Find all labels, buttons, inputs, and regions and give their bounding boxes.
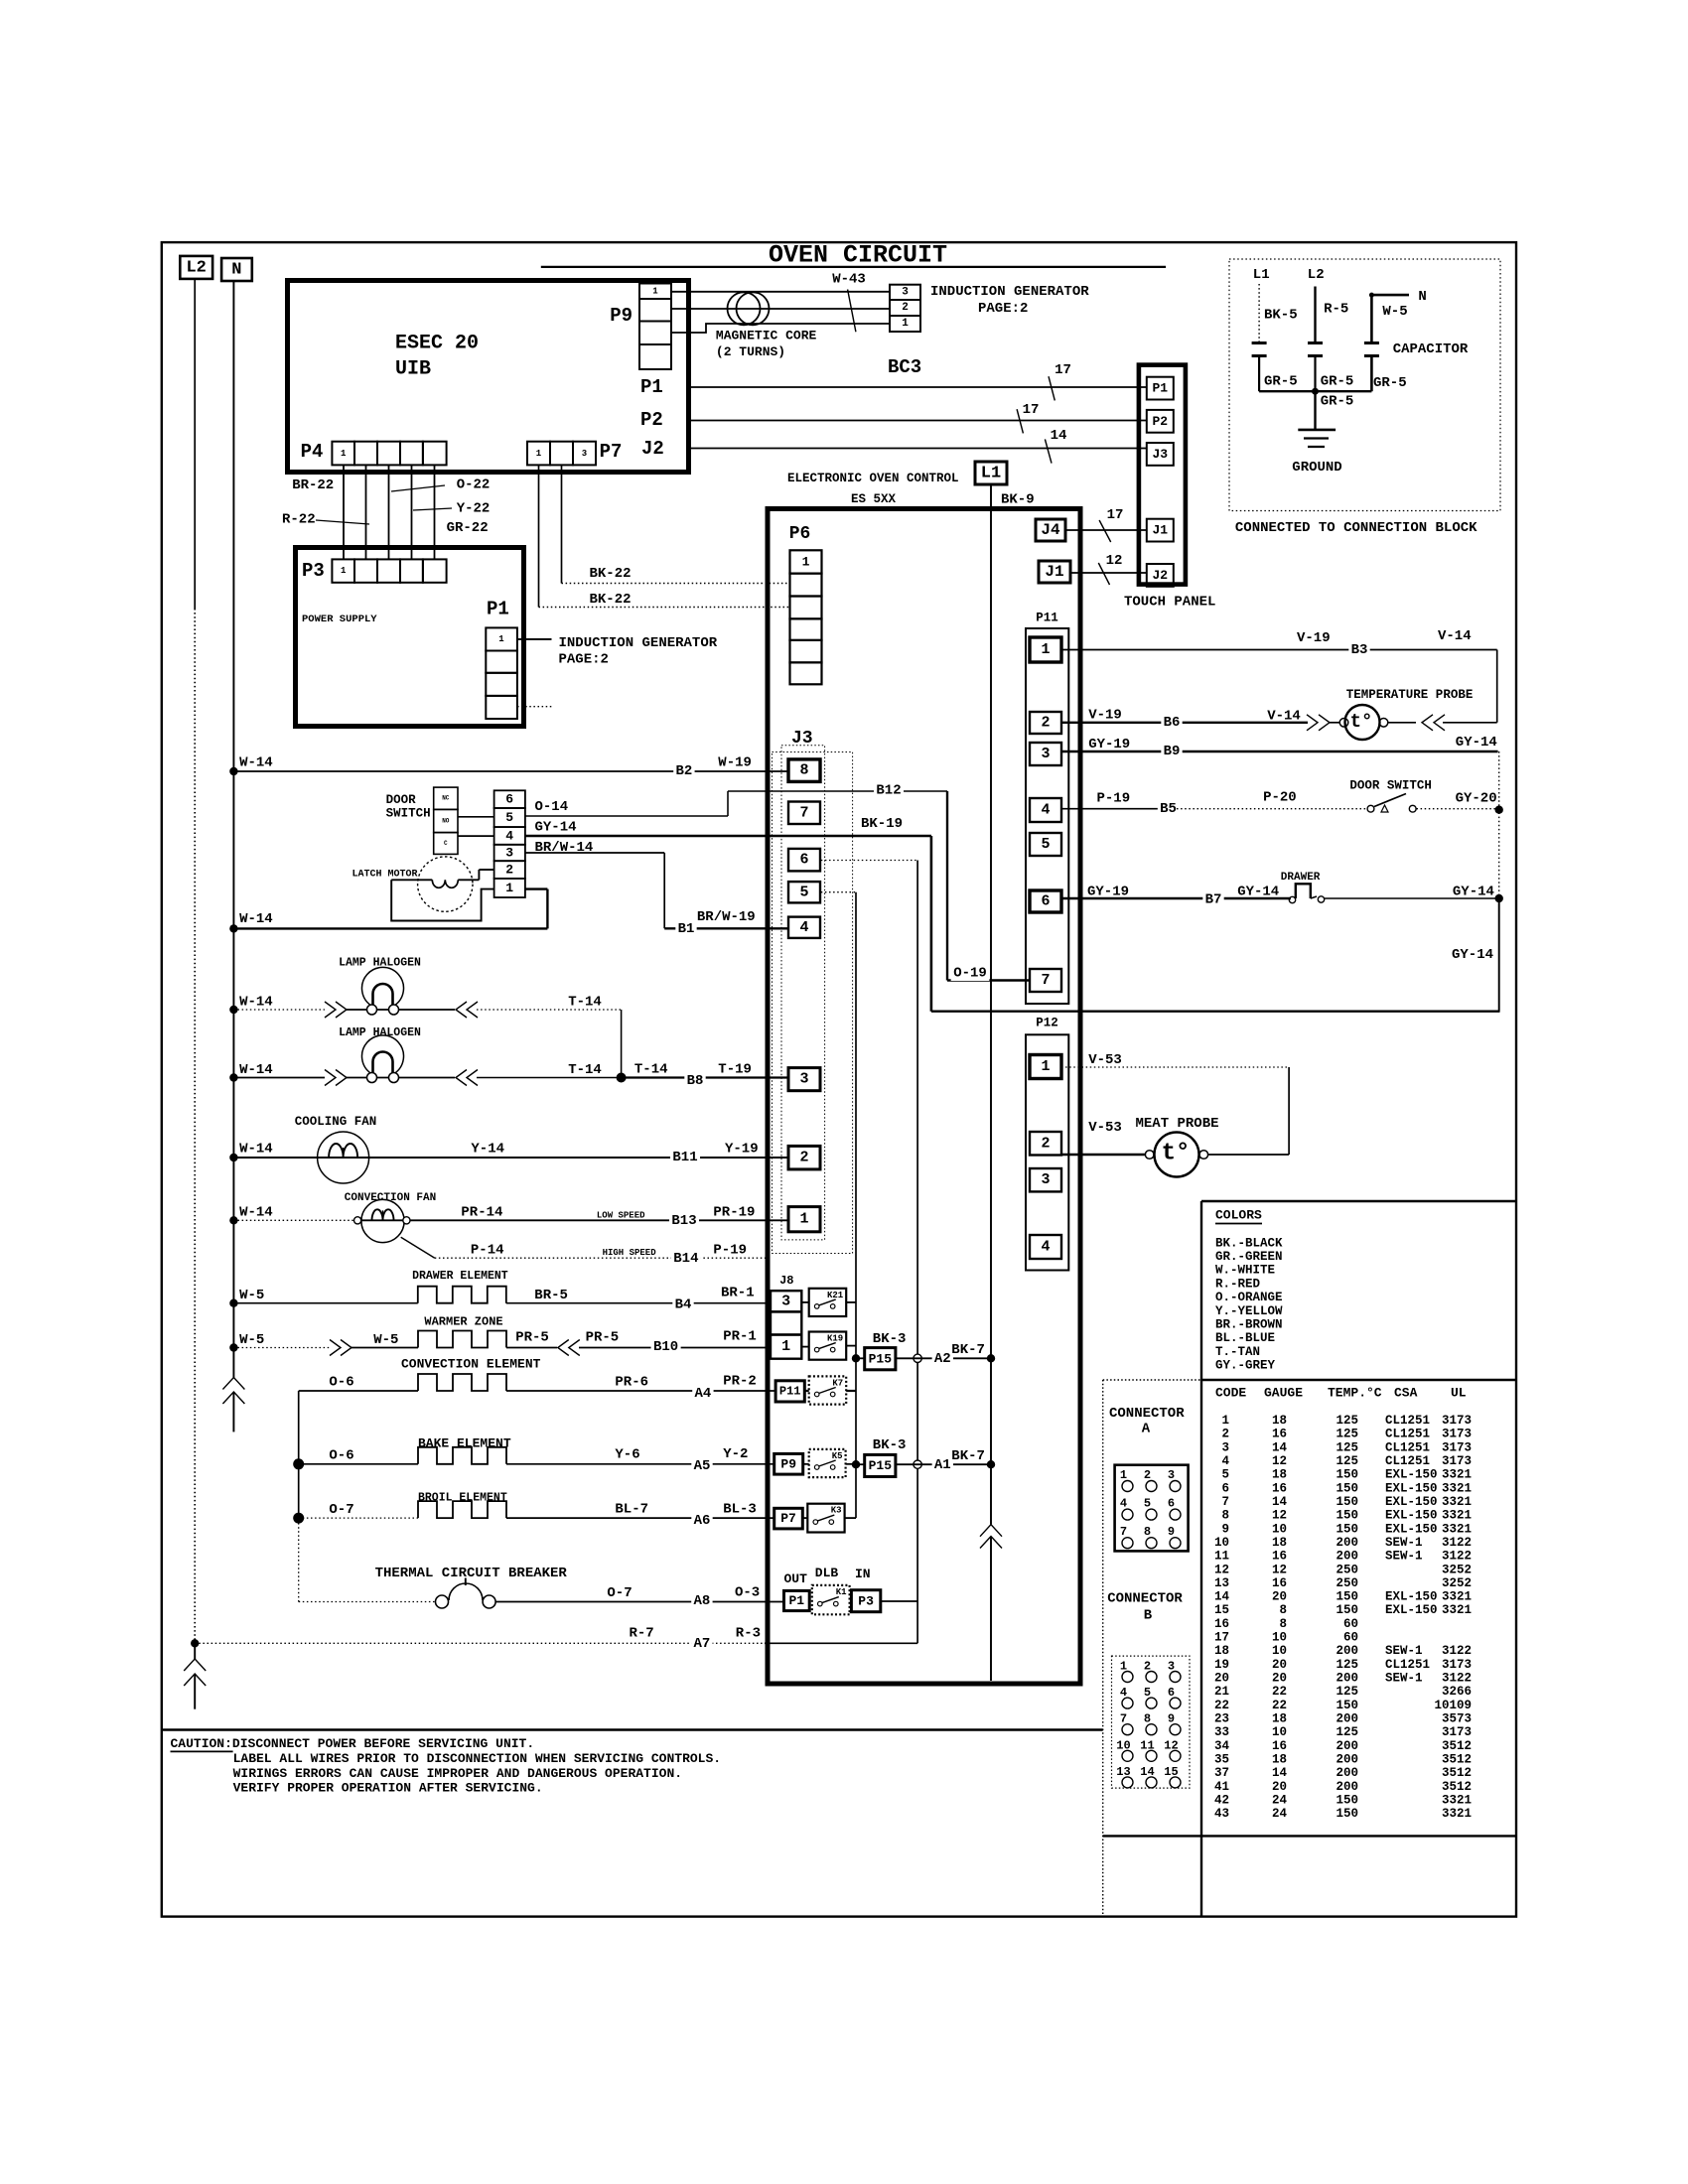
svg-text:W-14: W-14: [239, 995, 273, 1011]
svg-text:THERMAL CIRCUIT BREAKER: THERMAL CIRCUIT BREAKER: [375, 1566, 568, 1581]
svg-text:J1: J1: [1045, 563, 1063, 581]
svg-text:PR-5: PR-5: [515, 1330, 549, 1346]
svg-text:3266: 3266: [1442, 1685, 1472, 1699]
svg-text:42: 42: [1214, 1793, 1229, 1807]
svg-text:A: A: [1142, 1422, 1151, 1437]
svg-text:10: 10: [1272, 1522, 1287, 1536]
svg-text:12: 12: [1272, 1454, 1287, 1468]
svg-text:14: 14: [1214, 1590, 1230, 1604]
svg-text:22: 22: [1214, 1699, 1229, 1712]
svg-text:GR-22: GR-22: [447, 520, 489, 536]
svg-text:BR-22: BR-22: [292, 478, 334, 493]
svg-text:8: 8: [799, 762, 808, 779]
svg-text:BL-7: BL-7: [615, 1502, 648, 1518]
svg-text:34: 34: [1214, 1739, 1230, 1753]
svg-text:8: 8: [1144, 1525, 1151, 1539]
svg-text:PR-19: PR-19: [713, 1205, 755, 1221]
svg-text:CONVECTION FAN: CONVECTION FAN: [345, 1192, 436, 1204]
svg-text:BR/W-19: BR/W-19: [697, 909, 756, 925]
svg-text:O-6: O-6: [329, 1448, 353, 1464]
svg-text:150: 150: [1336, 1468, 1358, 1482]
svg-text:1: 1: [536, 449, 542, 459]
svg-text:COLORS: COLORS: [1215, 1208, 1262, 1223]
svg-text:ES 5XX: ES 5XX: [851, 492, 897, 506]
svg-text:EXL-150: EXL-150: [1385, 1522, 1438, 1536]
svg-text:N: N: [1418, 289, 1426, 305]
svg-text:V-14: V-14: [1438, 628, 1472, 644]
svg-text:4: 4: [1120, 1497, 1127, 1511]
svg-text:CL1251: CL1251: [1385, 1414, 1430, 1428]
svg-text:3321: 3321: [1442, 1590, 1472, 1604]
svg-text:Y-6: Y-6: [615, 1447, 639, 1463]
svg-text:16: 16: [1272, 1481, 1287, 1495]
svg-text:L1: L1: [1253, 267, 1270, 283]
svg-text:P2: P2: [1152, 414, 1168, 429]
svg-text:P1: P1: [640, 376, 663, 398]
svg-text:CONNECTOR: CONNECTOR: [1109, 1406, 1185, 1422]
svg-text:GY-14: GY-14: [1456, 735, 1497, 751]
svg-text:3: 3: [1041, 746, 1050, 762]
svg-text:ESEC 20: ESEC 20: [395, 333, 479, 355]
svg-text:60: 60: [1343, 1617, 1358, 1631]
svg-text:3512: 3512: [1442, 1739, 1472, 1753]
svg-text:18: 18: [1272, 1468, 1287, 1482]
svg-text:P-14: P-14: [471, 1243, 504, 1259]
svg-text:125: 125: [1336, 1454, 1358, 1468]
svg-text:R-5: R-5: [1324, 302, 1348, 318]
svg-text:GY-20: GY-20: [1456, 791, 1497, 807]
svg-text:W-14: W-14: [239, 911, 273, 927]
svg-text:BR-1: BR-1: [721, 1286, 755, 1301]
svg-text:SEW-1: SEW-1: [1385, 1672, 1423, 1686]
svg-text:DRAWER ELEMENT: DRAWER ELEMENT: [412, 1270, 508, 1283]
svg-text:3321: 3321: [1442, 1495, 1472, 1509]
svg-text:BR-5: BR-5: [534, 1288, 568, 1303]
svg-text:3173: 3173: [1442, 1440, 1472, 1454]
svg-text:O-6: O-6: [329, 1375, 353, 1391]
svg-text:6: 6: [799, 852, 808, 869]
svg-text:2: 2: [1221, 1428, 1229, 1441]
svg-text:CONNECTOR: CONNECTOR: [1107, 1591, 1183, 1607]
svg-text:BROIL ELEMENT: BROIL ELEMENT: [418, 1492, 507, 1505]
svg-text:O-7: O-7: [607, 1585, 632, 1601]
svg-text:150: 150: [1336, 1699, 1358, 1712]
svg-text:24: 24: [1272, 1793, 1288, 1807]
svg-text:MEAT PROBE: MEAT PROBE: [1136, 1116, 1219, 1132]
svg-text:CL1251: CL1251: [1385, 1454, 1430, 1468]
svg-text:6: 6: [1168, 1497, 1175, 1511]
svg-text:GR-5: GR-5: [1373, 375, 1407, 391]
svg-text:EXL-150: EXL-150: [1385, 1603, 1438, 1617]
svg-text:3173: 3173: [1442, 1725, 1472, 1739]
svg-text:1: 1: [1041, 1058, 1050, 1075]
svg-text:4: 4: [1041, 1239, 1050, 1256]
svg-text:1: 1: [1120, 1468, 1127, 1482]
svg-text:3512: 3512: [1442, 1766, 1472, 1780]
svg-text:EXL-150: EXL-150: [1385, 1495, 1438, 1509]
svg-text:150: 150: [1336, 1590, 1358, 1604]
svg-text:W-5: W-5: [373, 1332, 398, 1348]
svg-text:17: 17: [1107, 507, 1124, 523]
svg-text:TOUCH PANEL: TOUCH PANEL: [1124, 595, 1215, 611]
svg-text:3122: 3122: [1442, 1536, 1472, 1550]
svg-text:P12: P12: [1036, 1016, 1058, 1029]
svg-text:60: 60: [1343, 1631, 1358, 1645]
svg-text:3573: 3573: [1442, 1712, 1472, 1726]
svg-text:8: 8: [1279, 1617, 1287, 1631]
svg-text:W-5: W-5: [1382, 304, 1407, 320]
svg-text:CL1251: CL1251: [1385, 1428, 1430, 1441]
svg-text:3: 3: [505, 846, 513, 861]
svg-text:DOOR: DOOR: [386, 793, 417, 807]
svg-text:12: 12: [1272, 1563, 1287, 1576]
svg-text:4: 4: [1221, 1454, 1229, 1468]
svg-text:A2: A2: [934, 1351, 951, 1367]
svg-text:3: 3: [582, 449, 587, 459]
svg-text:4: 4: [505, 828, 513, 843]
svg-text:P15: P15: [869, 1351, 893, 1366]
svg-text:T-14: T-14: [568, 1062, 602, 1078]
svg-text:A7: A7: [693, 1636, 710, 1652]
svg-text:BK-22: BK-22: [590, 566, 632, 582]
svg-text:1: 1: [781, 1338, 790, 1355]
svg-text:J8: J8: [779, 1274, 793, 1288]
svg-text:INDUCTION GENERATOR: INDUCTION GENERATOR: [559, 635, 718, 651]
svg-text:3321: 3321: [1442, 1793, 1472, 1807]
svg-text:41: 41: [1214, 1780, 1229, 1794]
svg-text:8: 8: [1279, 1603, 1287, 1617]
svg-text:VERIFY PROPER OPERATION AFTER: VERIFY PROPER OPERATION AFTER SERVICING.: [233, 1781, 543, 1796]
svg-text:16: 16: [1214, 1617, 1229, 1631]
svg-text:7: 7: [1120, 1525, 1127, 1539]
svg-text:W-14: W-14: [239, 1205, 273, 1221]
svg-text:ELECTRONIC OVEN CONTROL: ELECTRONIC OVEN CONTROL: [787, 472, 959, 485]
svg-text:4: 4: [1041, 802, 1050, 819]
svg-text:5: 5: [505, 810, 513, 825]
svg-text:T-14: T-14: [568, 995, 602, 1011]
svg-text:GY-14: GY-14: [1237, 885, 1279, 900]
svg-text:BK-5: BK-5: [1264, 308, 1298, 324]
svg-text:3321: 3321: [1442, 1481, 1472, 1495]
svg-text:1: 1: [652, 286, 658, 296]
svg-text:2: 2: [799, 1150, 808, 1166]
svg-text:250: 250: [1336, 1576, 1358, 1590]
svg-text:POWER SUPPLY: POWER SUPPLY: [302, 614, 377, 625]
svg-text:B11: B11: [672, 1150, 697, 1165]
svg-text:W-5: W-5: [239, 1332, 264, 1348]
svg-text:24: 24: [1272, 1807, 1288, 1821]
svg-text:A5: A5: [694, 1458, 711, 1474]
svg-text:3: 3: [1041, 1171, 1050, 1188]
svg-text:LOW SPEED: LOW SPEED: [597, 1210, 645, 1220]
svg-text:O-7: O-7: [329, 1502, 353, 1518]
svg-text:Y-19: Y-19: [725, 1142, 759, 1158]
svg-text:BK-7: BK-7: [951, 1448, 985, 1464]
svg-text:UL: UL: [1451, 1386, 1467, 1401]
svg-text:35: 35: [1214, 1753, 1229, 1767]
svg-text:GR-5: GR-5: [1321, 373, 1354, 389]
svg-text:2: 2: [1041, 1135, 1050, 1152]
svg-text:B: B: [1144, 1608, 1153, 1624]
svg-text:BK-7: BK-7: [951, 1342, 985, 1358]
svg-text:CL1251: CL1251: [1385, 1440, 1430, 1454]
svg-text:5: 5: [1041, 836, 1050, 853]
svg-text:7: 7: [1221, 1495, 1229, 1509]
svg-text:3512: 3512: [1442, 1780, 1472, 1794]
svg-text:1: 1: [799, 1211, 808, 1228]
svg-text:P3: P3: [858, 1593, 874, 1608]
svg-text:150: 150: [1336, 1603, 1358, 1617]
svg-text:W-14: W-14: [239, 1062, 273, 1078]
svg-text:P7: P7: [780, 1511, 796, 1526]
svg-text:150: 150: [1336, 1793, 1358, 1807]
svg-text:P4: P4: [301, 441, 324, 463]
svg-text:K5: K5: [832, 1451, 843, 1461]
svg-text:14: 14: [1272, 1495, 1288, 1509]
svg-text:B3: B3: [1351, 642, 1368, 658]
svg-text:EXL-150: EXL-150: [1385, 1590, 1438, 1604]
svg-text:Y-2: Y-2: [723, 1446, 748, 1462]
svg-text:250: 250: [1336, 1563, 1358, 1576]
svg-text:MAGNETIC CORE: MAGNETIC CORE: [716, 329, 817, 343]
svg-text:2: 2: [1144, 1468, 1151, 1482]
svg-text:1: 1: [341, 566, 347, 576]
svg-text:BK-19: BK-19: [861, 816, 903, 832]
svg-text:20: 20: [1272, 1672, 1287, 1686]
svg-text:Y-14: Y-14: [471, 1142, 504, 1158]
svg-text:SEW-1: SEW-1: [1385, 1644, 1423, 1658]
svg-text:200: 200: [1336, 1712, 1358, 1726]
svg-text:3512: 3512: [1442, 1753, 1472, 1767]
svg-text:125: 125: [1336, 1428, 1358, 1441]
svg-text:(2 TURNS): (2 TURNS): [716, 344, 785, 359]
svg-text:1: 1: [902, 318, 909, 330]
svg-text:GY-14: GY-14: [1452, 947, 1493, 963]
svg-text:C: C: [444, 840, 448, 847]
svg-text:OVEN CIRCUIT: OVEN CIRCUIT: [769, 241, 947, 270]
svg-text:SWITCH: SWITCH: [386, 807, 431, 821]
svg-text:CL1251: CL1251: [1385, 1658, 1430, 1672]
svg-text:B4: B4: [675, 1297, 692, 1313]
svg-text:L2: L2: [1308, 267, 1325, 283]
svg-text:GY-19: GY-19: [1087, 885, 1129, 900]
svg-text:UIB: UIB: [395, 358, 431, 381]
svg-text:V-19: V-19: [1297, 630, 1331, 646]
svg-text:J4: J4: [1041, 521, 1060, 539]
svg-text:200: 200: [1336, 1766, 1358, 1780]
svg-text:INDUCTION GENERATOR: INDUCTION GENERATOR: [930, 284, 1089, 300]
svg-text:CONNECTED TO CONNECTION BLOCK: CONNECTED TO CONNECTION BLOCK: [1235, 520, 1477, 536]
svg-text:B2: B2: [675, 763, 692, 779]
svg-text:W-14: W-14: [239, 1142, 273, 1158]
svg-text:9: 9: [1168, 1525, 1175, 1539]
svg-text:10: 10: [1272, 1631, 1287, 1645]
svg-text:V-53: V-53: [1088, 1052, 1122, 1068]
svg-text:PR-2: PR-2: [723, 1374, 757, 1390]
svg-text:P11: P11: [1036, 612, 1058, 625]
svg-text:BL.-BLUE: BL.-BLUE: [1215, 1331, 1275, 1345]
svg-text:200: 200: [1336, 1780, 1358, 1794]
svg-text:18: 18: [1272, 1753, 1287, 1767]
svg-text:SEW-1: SEW-1: [1385, 1550, 1423, 1564]
svg-text:125: 125: [1336, 1685, 1358, 1699]
svg-text:N: N: [231, 261, 241, 280]
svg-text:BL-3: BL-3: [723, 1502, 757, 1518]
svg-text:9: 9: [1221, 1522, 1229, 1536]
svg-text:R-3: R-3: [736, 1626, 761, 1642]
svg-text:GAUGE: GAUGE: [1264, 1386, 1303, 1401]
svg-text:O-22: O-22: [457, 478, 491, 493]
svg-text:43: 43: [1214, 1807, 1229, 1821]
svg-text:125: 125: [1336, 1440, 1358, 1454]
svg-text:Y-22: Y-22: [457, 501, 491, 517]
svg-text:GY-19: GY-19: [1088, 737, 1130, 752]
svg-text:LABEL ALL WIRES PRIOR TO DISCO: LABEL ALL WIRES PRIOR TO DISCONNECTION W…: [233, 1751, 721, 1766]
svg-text:3252: 3252: [1442, 1563, 1472, 1576]
svg-text:J2: J2: [1152, 568, 1168, 583]
svg-text:R-7: R-7: [630, 1626, 654, 1642]
svg-text:19: 19: [1214, 1658, 1229, 1672]
svg-text:1: 1: [498, 634, 504, 644]
svg-text:K1: K1: [836, 1587, 847, 1597]
svg-text:12: 12: [1214, 1563, 1229, 1576]
svg-text:O-3: O-3: [735, 1585, 760, 1601]
svg-text:V-14: V-14: [1267, 709, 1301, 725]
svg-text:3: 3: [902, 286, 909, 298]
svg-text:DRAWER: DRAWER: [1281, 872, 1321, 884]
svg-text:P2: P2: [640, 409, 663, 431]
svg-text:7: 7: [799, 804, 808, 821]
svg-text:W.-WHITE: W.-WHITE: [1215, 1264, 1275, 1278]
svg-text:J3: J3: [791, 729, 813, 749]
svg-text:13: 13: [1214, 1576, 1229, 1590]
svg-text:1: 1: [1041, 641, 1050, 658]
svg-text:15: 15: [1214, 1603, 1229, 1617]
svg-text:PAGE:2: PAGE:2: [978, 301, 1028, 317]
svg-text:GR.-GREEN: GR.-GREEN: [1215, 1250, 1283, 1264]
svg-text:BK-3: BK-3: [873, 1331, 907, 1347]
svg-text:BR.-BROWN: BR.-BROWN: [1215, 1318, 1283, 1332]
svg-text:16: 16: [1272, 1576, 1287, 1590]
svg-text:20: 20: [1272, 1780, 1287, 1794]
svg-text:A8: A8: [693, 1593, 710, 1609]
svg-text:A1: A1: [934, 1457, 951, 1473]
svg-text:18: 18: [1214, 1644, 1229, 1658]
svg-text:12: 12: [1272, 1509, 1287, 1523]
svg-text:t°: t°: [1162, 1141, 1191, 1167]
svg-text:CONVECTION ELEMENT: CONVECTION ELEMENT: [401, 1357, 541, 1372]
svg-text:R.-RED: R.-RED: [1215, 1277, 1261, 1291]
svg-text:150: 150: [1336, 1509, 1358, 1523]
svg-text:B6: B6: [1164, 715, 1181, 731]
svg-text:11: 11: [1214, 1550, 1229, 1564]
svg-text:GR-5: GR-5: [1321, 394, 1354, 410]
svg-text:3: 3: [799, 1071, 808, 1088]
svg-text:21: 21: [1214, 1685, 1229, 1699]
svg-text:33: 33: [1214, 1725, 1229, 1739]
svg-text:CAUTION:DISCONNECT POWER BEFOR: CAUTION:DISCONNECT POWER BEFORE SERVICIN…: [171, 1736, 535, 1751]
svg-text:5: 5: [1221, 1468, 1229, 1482]
svg-text:150: 150: [1336, 1807, 1358, 1821]
svg-text:P9: P9: [780, 1456, 796, 1471]
svg-text:GR-5: GR-5: [1264, 374, 1298, 390]
svg-text:P15: P15: [869, 1458, 893, 1473]
svg-text:2: 2: [505, 863, 513, 878]
svg-text:1: 1: [1221, 1414, 1229, 1428]
svg-text:GY-14: GY-14: [1453, 885, 1494, 900]
svg-text:125: 125: [1336, 1414, 1358, 1428]
svg-text:5: 5: [1144, 1497, 1151, 1511]
svg-text:18: 18: [1272, 1414, 1287, 1428]
svg-text:3321: 3321: [1442, 1468, 1472, 1482]
svg-text:WIRINGS ERRORS CAN CAUSE IMPRO: WIRINGS ERRORS CAN CAUSE IMPROPER AND DA…: [233, 1766, 682, 1781]
svg-text:14: 14: [1272, 1440, 1288, 1454]
svg-text:2: 2: [1041, 715, 1050, 732]
svg-text:L2: L2: [186, 258, 206, 277]
svg-text:WARMER ZONE: WARMER ZONE: [424, 1315, 502, 1329]
svg-text:3321: 3321: [1442, 1807, 1472, 1821]
svg-text:B10: B10: [653, 1339, 678, 1355]
svg-text:V-19: V-19: [1088, 708, 1122, 724]
svg-text:200: 200: [1336, 1644, 1358, 1658]
svg-text:SEW-1: SEW-1: [1385, 1536, 1423, 1550]
svg-text:3173: 3173: [1442, 1658, 1472, 1672]
svg-text:BC3: BC3: [888, 356, 921, 378]
svg-text:3: 3: [781, 1293, 790, 1309]
svg-text:HIGH SPEED: HIGH SPEED: [603, 1248, 657, 1258]
svg-text:B8: B8: [687, 1073, 704, 1089]
svg-text:EXL-150: EXL-150: [1385, 1481, 1438, 1495]
svg-text:B12: B12: [876, 783, 901, 799]
svg-text:3: 3: [1221, 1440, 1229, 1454]
svg-text:P1: P1: [788, 1593, 804, 1608]
svg-text:3252: 3252: [1442, 1576, 1472, 1590]
svg-text:125: 125: [1336, 1725, 1358, 1739]
svg-text:125: 125: [1336, 1658, 1358, 1672]
svg-text:W-14: W-14: [239, 755, 273, 771]
svg-text:V-53: V-53: [1088, 1120, 1122, 1136]
svg-text:P1: P1: [487, 599, 509, 620]
svg-text:10: 10: [1272, 1644, 1287, 1658]
svg-text:TEMP.°C: TEMP.°C: [1328, 1386, 1382, 1401]
svg-text:B14: B14: [673, 1251, 698, 1267]
svg-text:LAMP HALOGEN: LAMP HALOGEN: [339, 1026, 421, 1039]
svg-text:EXL-150: EXL-150: [1385, 1468, 1438, 1482]
svg-text:3122: 3122: [1442, 1550, 1472, 1564]
svg-text:P9: P9: [610, 305, 633, 327]
svg-text:3321: 3321: [1442, 1522, 1472, 1536]
svg-text:GY-14: GY-14: [535, 820, 577, 836]
svg-text:O-14: O-14: [535, 799, 569, 815]
svg-text:NC: NC: [442, 795, 450, 802]
svg-text:CAPACITOR: CAPACITOR: [1393, 341, 1469, 357]
svg-text:J2: J2: [641, 438, 664, 460]
svg-text:P-19: P-19: [713, 1243, 747, 1259]
svg-text:200: 200: [1336, 1672, 1358, 1686]
svg-text:TEMPERATURE PROBE: TEMPERATURE PROBE: [1346, 688, 1474, 702]
svg-text:B7: B7: [1205, 892, 1222, 908]
svg-text:IN: IN: [855, 1567, 871, 1581]
svg-text:12: 12: [1106, 553, 1123, 569]
svg-text:P11: P11: [779, 1385, 801, 1399]
svg-text:14: 14: [1051, 428, 1067, 444]
svg-text:16: 16: [1272, 1739, 1287, 1753]
svg-text:DLB: DLB: [815, 1566, 839, 1580]
svg-text:L1: L1: [981, 465, 1001, 483]
svg-text:B5: B5: [1160, 801, 1177, 817]
svg-text:17: 17: [1214, 1631, 1229, 1645]
svg-text:17: 17: [1023, 402, 1040, 418]
